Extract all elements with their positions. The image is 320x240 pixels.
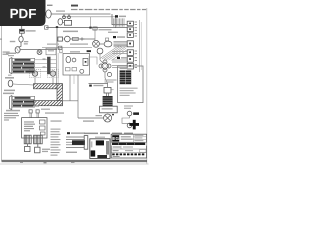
sheet border left xyxy=(1,26,3,161)
label small box right xyxy=(105,79,117,82)
tick labels mid xyxy=(43,58,46,67)
tee fitting A xyxy=(63,14,66,19)
legend box xyxy=(118,66,143,103)
label sensor bottom xyxy=(3,90,15,95)
tag on riser xyxy=(60,48,62,53)
sheet border bottom xyxy=(2,160,148,161)
label above gauge xyxy=(47,5,53,6)
sheet trim edge bottom xyxy=(0,163,149,165)
ribbon horizontal stack2 xyxy=(112,52,127,68)
solenoid stack 2 ticks xyxy=(135,51,137,67)
label KV xyxy=(89,85,103,87)
diamond valve cluster xyxy=(99,60,112,77)
sheet border right xyxy=(146,8,148,164)
detail view caption xyxy=(95,137,105,138)
tag box T1 xyxy=(73,37,79,40)
label mid row 2 xyxy=(70,43,88,44)
label PN ribbon top xyxy=(115,15,126,17)
center notes column xyxy=(51,129,61,156)
title block right cells xyxy=(133,134,146,142)
control box vessel 1 xyxy=(66,56,71,62)
title bar dark xyxy=(111,142,146,145)
diagonal hatch bundle xyxy=(100,46,127,61)
legend header xyxy=(120,68,128,69)
wire box K drop 1 xyxy=(69,75,71,101)
riser top tick xyxy=(56,26,58,28)
valve V3 xyxy=(64,36,71,42)
border tick left xyxy=(0,39,2,40)
dark dash right xyxy=(133,112,139,115)
wire fan2 to duct xyxy=(52,78,54,84)
control box internals xyxy=(66,68,77,71)
valve V2 xyxy=(37,50,42,55)
junction box top xyxy=(64,20,71,25)
connector x90 xyxy=(89,17,91,29)
label above box K xyxy=(70,51,80,52)
wire regulator to vessel xyxy=(18,42,21,47)
wire vessel to riser xyxy=(20,49,57,51)
wire second top horizontal xyxy=(62,16,116,18)
exchanger bundle 1 xyxy=(10,58,35,74)
label wire left 1 xyxy=(51,120,62,121)
control box K xyxy=(63,54,90,76)
label mid row xyxy=(63,31,78,32)
ribbon vertical bundle xyxy=(114,18,125,26)
manifold unit bottom xyxy=(107,41,133,48)
duct feed verticals xyxy=(56,50,58,85)
label ribbon mid xyxy=(108,32,118,33)
piston assembly 1 xyxy=(24,135,31,151)
label mid row 2 left xyxy=(47,44,59,45)
label sensor top xyxy=(5,75,14,79)
label air inlet xyxy=(3,51,10,54)
solenoid stack 1 ticks xyxy=(135,22,137,36)
tag above accumulator xyxy=(106,38,109,41)
detail view box xyxy=(90,139,110,159)
motor M1 body xyxy=(103,96,113,106)
wire box K drop 2 xyxy=(74,75,78,118)
accumulator oval xyxy=(104,41,112,47)
pre-title text line xyxy=(84,133,133,135)
revision strip xyxy=(112,153,144,155)
notes header text xyxy=(71,5,78,7)
wire vertical drop x112 xyxy=(112,14,127,25)
wire long mid horizontal xyxy=(46,27,127,29)
wire mid row xyxy=(70,38,95,40)
valve above diamond xyxy=(97,48,103,63)
actuator box xyxy=(100,106,118,113)
label regulator right xyxy=(24,41,29,45)
wire motor top xyxy=(107,84,109,88)
wire vessel to box xyxy=(63,21,65,23)
wire vertical drop x116 xyxy=(115,17,117,28)
wire fan1 to duct xyxy=(34,78,36,84)
border tick mid xyxy=(44,162,47,164)
legend grid xyxy=(120,70,132,84)
sensor oval left xyxy=(8,80,33,87)
solenoid box S0 xyxy=(58,37,63,41)
wire pump to accumulator xyxy=(99,43,104,45)
control box gauge xyxy=(80,69,84,73)
loop wire xyxy=(122,116,130,124)
wire horizontal y83 xyxy=(89,83,108,85)
solenoid stack 2 xyxy=(127,50,133,69)
label filter xyxy=(26,30,36,31)
border tick 1 xyxy=(20,162,23,164)
label piston right xyxy=(42,149,50,153)
machine text xyxy=(24,121,35,131)
machine internals right xyxy=(40,120,46,135)
fitting arrow xyxy=(80,37,84,40)
cross fitting black xyxy=(129,120,139,130)
label dark ribbon xyxy=(113,36,125,38)
piston assembly 2 xyxy=(34,135,43,153)
bottom bundle xyxy=(66,136,88,150)
title block footer text xyxy=(113,156,120,157)
title block row 3 xyxy=(111,150,146,153)
wire boxK to diamond xyxy=(88,57,97,65)
svg-text:EG: EG xyxy=(112,136,119,141)
main valve MV1 xyxy=(104,114,114,122)
vessel B1 xyxy=(15,47,20,53)
pump P1 xyxy=(93,27,100,48)
sheet background xyxy=(0,0,149,198)
wire valve left xyxy=(78,117,104,119)
label ports xyxy=(124,105,133,108)
dashed fan box 1 xyxy=(30,70,41,78)
gauge G1 xyxy=(46,10,51,18)
filter F1 xyxy=(19,29,24,33)
svg-text:PDF: PDF xyxy=(10,6,37,21)
wire duct to riser xyxy=(62,100,78,102)
dark tick box K corner xyxy=(87,50,91,52)
bottom bundle label xyxy=(67,132,85,134)
rail right of stacks xyxy=(140,20,142,72)
label mid top xyxy=(56,10,65,11)
solenoid stack 1 xyxy=(127,21,133,37)
regulator R1 xyxy=(19,36,23,42)
title block row 2 xyxy=(111,146,146,149)
title block logo xyxy=(112,135,119,141)
pdf badge xyxy=(0,0,46,26)
label at valve left xyxy=(96,115,103,116)
control box vessel 2 xyxy=(72,58,76,62)
title block frame xyxy=(111,134,146,158)
wire main top horizontal xyxy=(51,13,110,15)
dark riser column xyxy=(47,57,51,74)
label below bundle2 xyxy=(6,110,20,112)
fitting at badge edge xyxy=(45,26,48,29)
duct bottom band xyxy=(34,101,63,106)
junction box mid xyxy=(46,48,56,55)
machine box xyxy=(22,118,47,138)
left notes block xyxy=(4,113,19,121)
legend text xyxy=(120,88,138,96)
fitting small xyxy=(59,46,62,49)
bottom bundle caption xyxy=(66,152,77,153)
control box switch xyxy=(83,58,88,65)
wire filter to regulator xyxy=(21,33,23,36)
notes line text xyxy=(71,9,146,10)
dashed fan box 2 xyxy=(48,70,59,78)
border tick 2 xyxy=(71,162,75,164)
label wire left 2 xyxy=(83,120,94,121)
wire mid row 2 xyxy=(42,47,92,49)
motor M1 cap xyxy=(104,87,114,96)
wire diamond down xyxy=(105,72,108,84)
port circle right 2 xyxy=(127,123,132,128)
riser x57 xyxy=(56,27,58,50)
bundle1 outlet wires xyxy=(35,60,57,72)
title block header text xyxy=(121,136,133,140)
label regulator left xyxy=(10,41,16,42)
tee fitting B xyxy=(68,14,71,19)
small valve pair above machine xyxy=(29,106,64,118)
label above bundle1 xyxy=(6,53,16,57)
fitting stack top right xyxy=(93,27,112,30)
exchanger bundle 2 xyxy=(10,96,35,110)
duct right band xyxy=(57,84,62,106)
duct top band xyxy=(34,84,63,89)
small vessel oval xyxy=(58,19,63,25)
port circle right 1 xyxy=(127,111,132,116)
label dark stack2 xyxy=(117,57,127,59)
wire inlet vertical xyxy=(21,26,23,29)
